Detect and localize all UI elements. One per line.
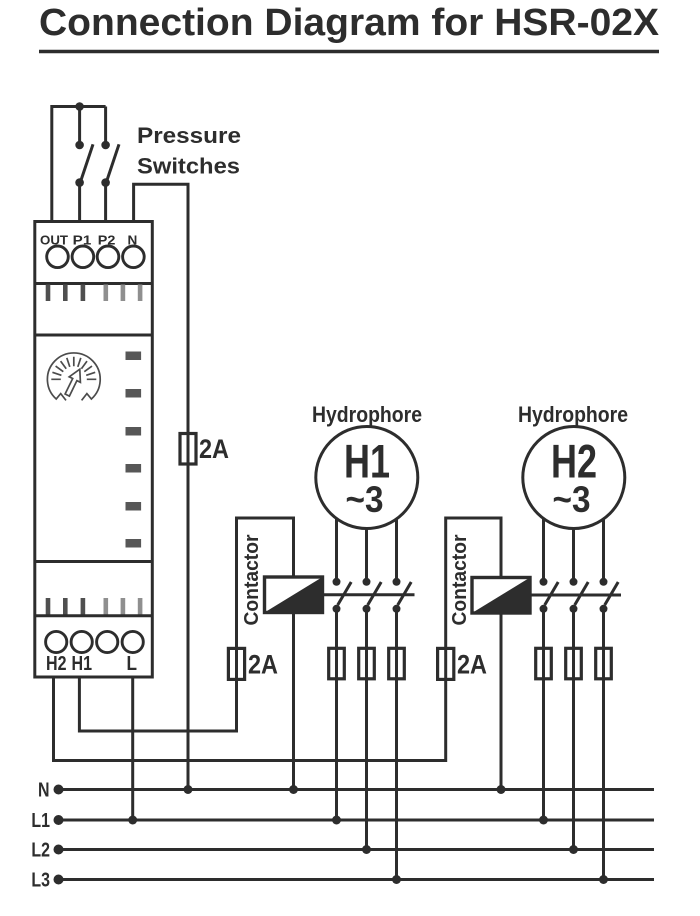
wire coil K1 to N bus — [292, 613, 295, 790]
gauge dial — [47, 353, 100, 400]
wire K1 pole1 to fuse — [335, 609, 338, 649]
node L3 start — [54, 875, 64, 885]
svg-text:Contactor: Contactor — [240, 534, 263, 625]
wire fuse to L2 — [365, 679, 368, 850]
node L2 start — [54, 845, 64, 855]
terminal H1 — [71, 631, 92, 652]
bus L2 — [58, 848, 654, 851]
wire fuse to L1 — [335, 679, 338, 820]
wire N terminal to fuse F1 — [134, 184, 188, 433]
fuse H2 L2 — [566, 648, 582, 679]
fuse 2A K2 — [438, 648, 454, 679]
wire fuse to L1 right — [542, 679, 545, 820]
title underline — [39, 50, 659, 54]
wire H1 phase1 — [335, 519, 338, 582]
wire H1 phase3 — [395, 519, 398, 582]
svg-text:L2: L2 — [31, 839, 50, 862]
wire P1 drop — [78, 107, 81, 146]
node L1 L-wire — [128, 816, 137, 825]
node L2 H2 phase — [569, 845, 578, 854]
linkage K1 — [323, 593, 415, 596]
fuse F1 — [180, 434, 196, 465]
terminal spare — [97, 631, 118, 652]
node L1 H1 phase — [332, 816, 341, 825]
node junction top bar — [75, 102, 84, 111]
svg-text:H2: H2 — [46, 652, 67, 675]
wire fuse to L2 right — [572, 679, 575, 850]
pressure switch S2 — [101, 141, 119, 187]
wire L to L1 bus — [131, 677, 134, 820]
fuse H1 L1 — [329, 648, 345, 679]
wire K2 pole3 to fuse — [602, 609, 605, 649]
svg-text:Hydrophore: Hydrophore — [312, 402, 422, 427]
fuse H1 L3 — [389, 648, 405, 679]
fuse 2A K1 — [228, 648, 244, 679]
motor H1 circle — [316, 427, 418, 529]
svg-text:~3: ~3 — [346, 479, 384, 520]
svg-text:L: L — [127, 652, 138, 675]
rail clips bottom — [46, 598, 143, 615]
contact K1 pole1 — [333, 578, 352, 613]
display segments — [126, 352, 142, 548]
node L2 H1 phase — [362, 845, 371, 854]
node L3 H1 phase — [392, 875, 401, 884]
wire H2 phase3 — [602, 519, 605, 582]
svg-text:L1: L1 — [31, 809, 50, 832]
divider mid-top — [35, 334, 153, 337]
node L3 H2 phase — [599, 875, 608, 884]
wire K2 pole2 to fuse — [572, 609, 575, 649]
node N coil K2 — [497, 785, 506, 794]
svg-text:Contactor: Contactor — [448, 534, 471, 625]
terminal P1 — [72, 246, 94, 268]
divider terminals bottom — [35, 614, 153, 617]
wire H2 phase1 — [542, 519, 545, 582]
wire K1 pole2 to fuse — [365, 609, 368, 649]
wire H1 to contactor K1 fuse — [79, 677, 236, 731]
wire fuse to L3 — [395, 679, 398, 880]
svg-text:N: N — [38, 779, 50, 802]
node L1 H2 phase — [539, 816, 548, 825]
svg-text:H1: H1 — [72, 652, 93, 675]
svg-text:2A: 2A — [457, 649, 487, 679]
node N fuse F1 — [184, 785, 193, 794]
contact K2 pole1 — [540, 578, 559, 613]
contact K2 pole2 — [570, 578, 589, 613]
wire K1 pole3 to fuse — [395, 609, 398, 649]
bus N — [58, 788, 654, 791]
node N coil K1 — [289, 785, 298, 794]
wire S2 to P2 terminal — [104, 183, 107, 222]
terminal L — [122, 631, 143, 652]
wire P2 drop — [104, 107, 107, 146]
relay module HSR-02X outline — [35, 222, 153, 678]
svg-text:2A: 2A — [199, 434, 229, 464]
divider top — [35, 282, 153, 285]
svg-text:L3: L3 — [31, 869, 50, 892]
wire fuse to L3 right — [602, 679, 605, 880]
coil K2 — [472, 578, 530, 614]
contact K2 pole3 — [600, 578, 619, 613]
rail clips top — [46, 285, 143, 302]
node N start — [54, 785, 64, 795]
pressure switch S1 — [75, 141, 93, 187]
wire K2 pole1 to fuse — [542, 609, 545, 649]
bus L1 — [58, 819, 654, 822]
svg-text:Switches: Switches — [137, 154, 240, 179]
linkage K2 — [530, 594, 621, 597]
wire H1 phase2 — [365, 529, 368, 582]
wire F1 to N bus — [187, 464, 190, 790]
svg-text:2A: 2A — [248, 649, 278, 679]
bus L3 — [58, 878, 654, 881]
fuse H2 L1 — [536, 648, 552, 679]
wire coil K2 to N bus — [500, 613, 503, 790]
fuse H2 L3 — [596, 648, 612, 679]
terminal H2 — [46, 631, 67, 652]
wire H2 phase2 — [572, 529, 575, 582]
contact K1 pole2 — [363, 578, 382, 613]
terminal N — [123, 246, 145, 268]
coil K1 — [265, 577, 323, 613]
svg-text:~3: ~3 — [553, 479, 591, 520]
contactor K2 frame — [446, 518, 501, 648]
fuse H1 L2 — [359, 648, 375, 679]
svg-text:Pressure: Pressure — [137, 123, 241, 148]
motor H2 circle — [523, 427, 625, 529]
terminal P2 — [97, 246, 119, 268]
wire S1 to P1 terminal — [78, 183, 81, 222]
label Pressure Switches — [137, 123, 241, 179]
contact K1 pole3 — [393, 578, 412, 613]
node L1 start — [54, 815, 64, 825]
wire OUT riser — [52, 107, 106, 222]
wire H2 to contactor K2 fuse — [54, 677, 446, 761]
contactor K1 frame — [237, 518, 294, 648]
terminal OUT — [47, 246, 69, 268]
svg-text:Hydrophore: Hydrophore — [518, 402, 628, 427]
divider bottom — [35, 560, 153, 563]
svg-text:Connection Diagram for HSR-02X: Connection Diagram for HSR-02X — [39, 2, 660, 44]
